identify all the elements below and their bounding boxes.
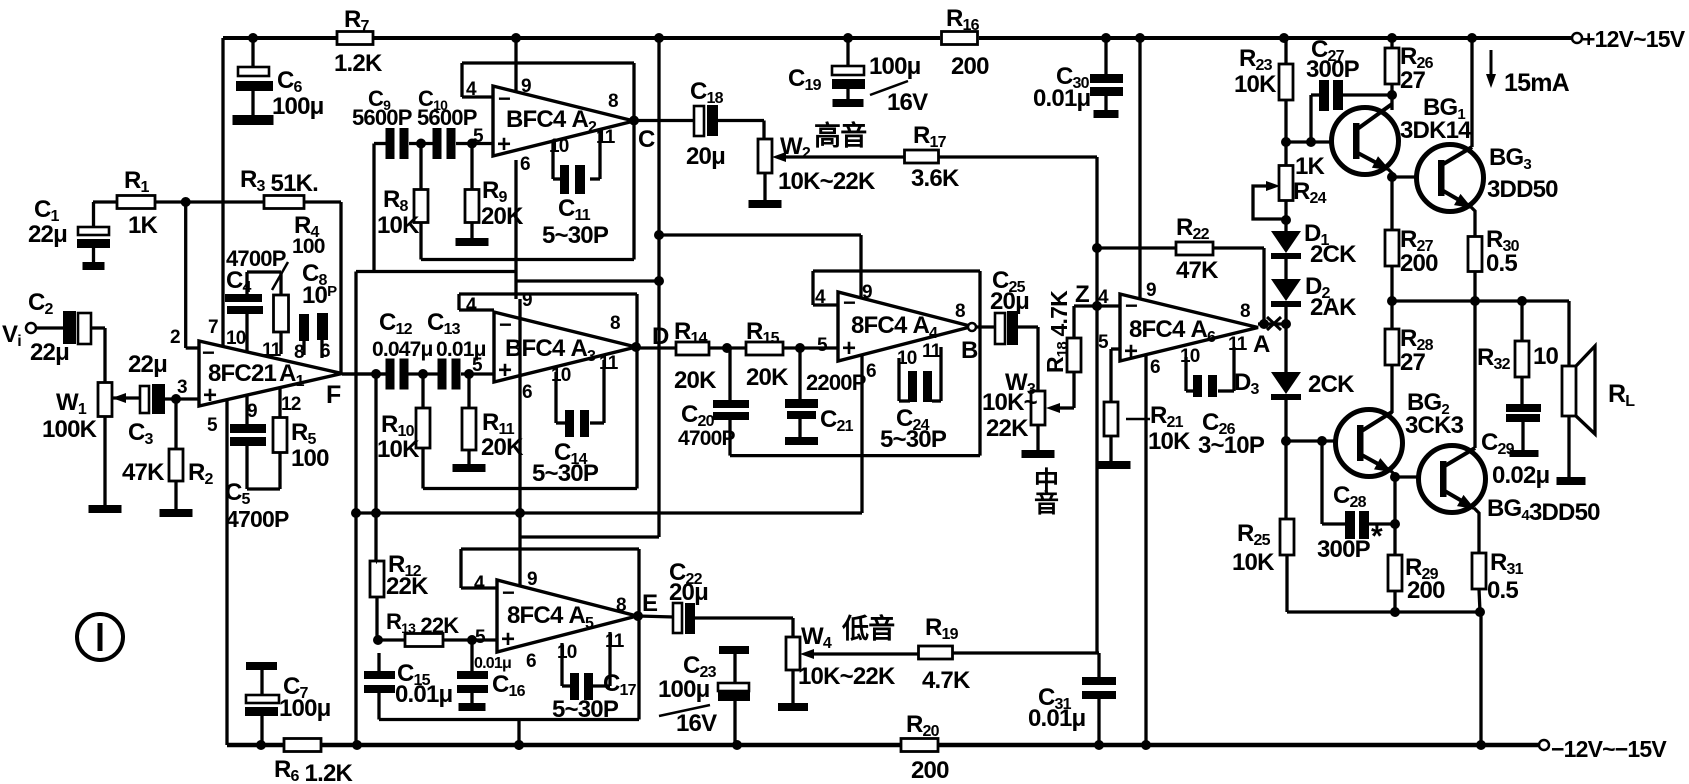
svg-text:1.2K: 1.2K [334, 50, 383, 77]
svg-text:200: 200 [1400, 250, 1438, 277]
svg-text:−: − [202, 340, 214, 365]
svg-text:4700P: 4700P [678, 427, 736, 450]
svg-text:20K: 20K [481, 434, 524, 461]
svg-text:8: 8 [616, 595, 626, 616]
svg-text:6: 6 [522, 382, 532, 403]
svg-text:10K~22K: 10K~22K [778, 168, 876, 195]
svg-text:−12V~−15V: −12V~−15V [1551, 736, 1667, 762]
svg-text:10: 10 [551, 365, 571, 386]
svg-text:8FC4A5: 8FC4A5 [507, 602, 594, 632]
svg-text:1K: 1K [1295, 153, 1326, 180]
svg-text:20K: 20K [674, 367, 717, 394]
svg-text:27: 27 [1400, 67, 1426, 94]
svg-text:10: 10 [226, 328, 246, 349]
svg-text:22μ: 22μ [28, 221, 67, 248]
svg-text:300P: 300P [1317, 536, 1371, 563]
svg-text:+12V~15V: +12V~15V [1582, 26, 1686, 52]
svg-text:10K~22K: 10K~22K [798, 663, 896, 690]
svg-text:20μ: 20μ [686, 143, 725, 170]
svg-text:1K: 1K [128, 212, 159, 239]
svg-text:3CK3: 3CK3 [1405, 412, 1464, 439]
svg-text:20K: 20K [746, 364, 789, 391]
svg-text:4.7K: 4.7K [922, 667, 971, 694]
svg-text:20μ: 20μ [990, 288, 1029, 315]
svg-text:11: 11 [262, 340, 282, 361]
svg-text:+: + [842, 335, 856, 362]
svg-text:R3 51K.: R3 51K. [240, 166, 318, 197]
svg-text:R18 4.7K: R18 4.7K [1042, 290, 1072, 373]
svg-text:10: 10 [1533, 343, 1559, 370]
svg-text:8FC4A4: 8FC4A4 [851, 312, 938, 342]
svg-text:2CK: 2CK [1308, 371, 1355, 398]
svg-text:10K: 10K [377, 436, 420, 463]
svg-text:5: 5 [473, 126, 484, 147]
svg-text:3DD50: 3DD50 [1487, 176, 1558, 203]
svg-text:7: 7 [208, 317, 218, 338]
svg-text:5: 5 [207, 415, 218, 436]
svg-text:47K: 47K [1176, 257, 1219, 284]
svg-text:8FC21A1: 8FC21A1 [208, 360, 305, 390]
svg-text:音: 音 [1034, 489, 1059, 518]
svg-text:22μ: 22μ [30, 339, 69, 366]
svg-text:5~30P: 5~30P [532, 460, 599, 487]
svg-text:2: 2 [170, 327, 180, 348]
svg-text:16V: 16V [676, 710, 717, 737]
svg-text:+: + [203, 382, 217, 409]
svg-text:R13 22K: R13 22K [386, 609, 459, 638]
svg-text:27: 27 [1400, 349, 1426, 376]
svg-text:8: 8 [608, 91, 618, 112]
svg-text:100K: 100K [42, 416, 98, 443]
svg-text:高音: 高音 [814, 120, 866, 151]
svg-text:5~30P: 5~30P [542, 222, 609, 249]
svg-text:200: 200 [1407, 577, 1445, 604]
svg-text:+: + [497, 131, 511, 158]
svg-text:10: 10 [557, 642, 577, 663]
svg-text:−: − [502, 580, 514, 605]
svg-text:12: 12 [281, 394, 301, 415]
svg-text:11: 11 [605, 631, 625, 652]
svg-text:3~10P: 3~10P [1198, 432, 1265, 459]
svg-text:R6 1.2K: R6 1.2K [274, 756, 353, 784]
svg-text:6: 6 [1150, 357, 1160, 378]
svg-text:3.6K: 3.6K [911, 165, 960, 192]
svg-text:−: − [843, 290, 855, 315]
svg-text:10K: 10K [1148, 428, 1191, 455]
svg-text:−: − [498, 86, 510, 111]
svg-text:6: 6 [520, 154, 530, 175]
svg-text:11: 11 [599, 353, 619, 374]
svg-text:100μ: 100μ [869, 53, 921, 80]
svg-text:8: 8 [955, 301, 965, 322]
svg-text:A: A [1253, 331, 1270, 358]
svg-text:4700P: 4700P [226, 506, 289, 532]
svg-text:47K: 47K [122, 459, 165, 486]
svg-text:100μ: 100μ [279, 695, 331, 722]
svg-text:200: 200 [911, 757, 949, 784]
svg-text:BFC4A2: BFC4A2 [506, 106, 597, 136]
svg-text:4: 4 [466, 79, 477, 100]
svg-text:C: C [638, 126, 655, 153]
svg-text:0.01μ: 0.01μ [395, 681, 453, 708]
svg-text:16V: 16V [887, 89, 928, 116]
svg-text:300P: 300P [1306, 56, 1360, 83]
svg-text:100: 100 [291, 445, 329, 472]
svg-text:2AK: 2AK [1310, 294, 1357, 321]
svg-text:0.02μ: 0.02μ [1492, 462, 1550, 489]
svg-text:4: 4 [474, 573, 485, 594]
svg-text:9: 9 [521, 76, 531, 97]
svg-text:22K: 22K [986, 415, 1029, 442]
svg-text:F: F [326, 381, 341, 409]
svg-text:5: 5 [817, 335, 828, 356]
svg-text:4: 4 [466, 295, 477, 316]
svg-text:22μ: 22μ [128, 351, 167, 378]
svg-text:200: 200 [951, 53, 989, 80]
svg-text:−: − [499, 312, 511, 337]
svg-text:4: 4 [815, 287, 826, 308]
svg-text:5~30P: 5~30P [880, 426, 947, 453]
svg-text:10K: 10K [1234, 71, 1277, 98]
svg-text:9: 9 [527, 569, 537, 590]
svg-text:BG43DD50: BG43DD50 [1487, 495, 1600, 526]
svg-text:D: D [652, 323, 669, 350]
svg-text:+: + [1124, 338, 1138, 365]
svg-text:5: 5 [1098, 332, 1109, 353]
svg-text:10K~: 10K~ [982, 389, 1038, 416]
svg-text:10: 10 [1180, 346, 1200, 367]
svg-text:0.01μ: 0.01μ [1028, 705, 1086, 732]
svg-text:2200P: 2200P [806, 370, 866, 395]
svg-text:8FC4A6: 8FC4A6 [1129, 316, 1216, 346]
svg-text:+: + [501, 626, 515, 653]
svg-text:10K: 10K [1232, 549, 1275, 576]
svg-text:0.5: 0.5 [1486, 250, 1517, 277]
svg-text:4: 4 [1098, 287, 1109, 308]
svg-text:10K: 10K [377, 212, 420, 239]
svg-text:6: 6 [526, 651, 536, 672]
svg-text:5: 5 [472, 355, 483, 376]
svg-text:E: E [642, 590, 658, 617]
svg-text:B: B [961, 337, 978, 364]
svg-text:5600P: 5600P [352, 105, 412, 130]
svg-text:100μ: 100μ [658, 676, 710, 703]
svg-text:5: 5 [475, 627, 486, 648]
svg-text:15mA: 15mA [1504, 69, 1570, 97]
svg-text:Z: Z [1075, 281, 1089, 308]
svg-text:8: 8 [610, 313, 620, 334]
svg-text:+: + [498, 357, 512, 384]
svg-text:−: − [1125, 293, 1137, 318]
svg-text:6: 6 [866, 361, 876, 382]
svg-text:0.01μ: 0.01μ [474, 655, 511, 672]
svg-text:11: 11 [922, 341, 942, 362]
svg-text:9: 9 [522, 290, 532, 311]
svg-text:100μ: 100μ [272, 93, 324, 120]
svg-text:3: 3 [177, 377, 187, 398]
svg-text:20μ: 20μ [669, 579, 708, 606]
svg-text:8: 8 [1240, 301, 1250, 322]
svg-text:9: 9 [862, 282, 872, 303]
svg-text:0.5: 0.5 [1487, 577, 1518, 604]
svg-text:5600P: 5600P [417, 105, 477, 130]
svg-text:22K: 22K [386, 573, 429, 600]
svg-text:低音: 低音 [841, 613, 894, 644]
svg-text:*: * [1371, 520, 1383, 553]
svg-text:5~30P: 5~30P [552, 696, 619, 723]
svg-text:100: 100 [292, 235, 325, 258]
svg-text:11: 11 [1228, 334, 1248, 355]
svg-text:9: 9 [1146, 280, 1156, 301]
svg-text:0.01μ: 0.01μ [1033, 85, 1091, 112]
svg-text:3DK14: 3DK14 [1400, 117, 1472, 144]
svg-text:2CK: 2CK [1310, 241, 1357, 268]
svg-text:0.047μ: 0.047μ [372, 338, 433, 361]
